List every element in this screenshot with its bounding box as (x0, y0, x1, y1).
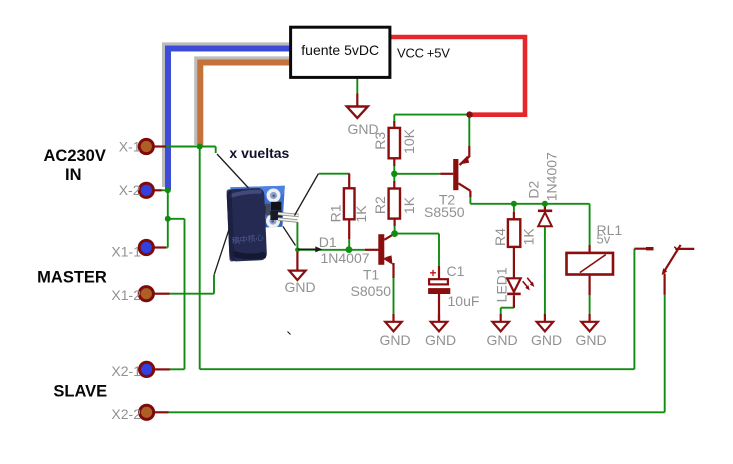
svg-text:S8550: S8550 (424, 204, 465, 220)
svg-text:1K: 1K (353, 205, 369, 223)
svg-text:10uF: 10uF (448, 293, 480, 309)
svg-text:5v: 5v (597, 232, 611, 247)
svg-text:GND: GND (284, 279, 315, 295)
svg-text:X1-1: X1-1 (111, 243, 141, 259)
svg-text:R2: R2 (372, 196, 388, 214)
svg-text:S8050: S8050 (351, 283, 392, 299)
svg-text:D2: D2 (526, 180, 542, 198)
svg-text:VCC: VCC (397, 46, 424, 61)
svg-text:IN: IN (65, 166, 82, 184)
svg-text:GND: GND (575, 332, 606, 348)
svg-text:SLAVE: SLAVE (53, 382, 107, 400)
svg-text:D1: D1 (319, 234, 337, 250)
svg-text:GND: GND (531, 332, 562, 348)
svg-text:10K: 10K (401, 128, 417, 154)
svg-text:T1: T1 (363, 266, 380, 282)
svg-text:X1-2: X1-2 (111, 287, 141, 303)
svg-text:1K: 1K (401, 196, 417, 214)
svg-text:X2-2: X2-2 (111, 406, 141, 422)
svg-text:X2-1: X2-1 (111, 363, 141, 379)
svg-text:GND: GND (425, 332, 456, 348)
svg-text:+: + (429, 266, 436, 280)
svg-text:1N4007: 1N4007 (321, 250, 370, 266)
svg-text:AC230V: AC230V (44, 147, 106, 165)
svg-text:C1: C1 (447, 263, 465, 279)
svg-text:R3: R3 (372, 132, 388, 150)
svg-text:R1: R1 (328, 204, 344, 222)
svg-text:x vueltas: x vueltas (229, 145, 289, 161)
svg-text:LED1: LED1 (493, 267, 509, 302)
svg-text:X-1: X-1 (119, 138, 141, 154)
svg-text:+5V: +5V (427, 46, 450, 61)
svg-text:1N4007: 1N4007 (544, 152, 560, 201)
svg-text:1K: 1K (520, 228, 536, 246)
svg-text:GND: GND (486, 332, 517, 348)
svg-text:MASTER: MASTER (37, 268, 107, 286)
svg-text:R4: R4 (492, 228, 508, 246)
svg-text:X-2: X-2 (119, 182, 141, 198)
svg-text:fuente 5vDC: fuente 5vDC (301, 42, 379, 58)
svg-text:GND: GND (379, 332, 410, 348)
